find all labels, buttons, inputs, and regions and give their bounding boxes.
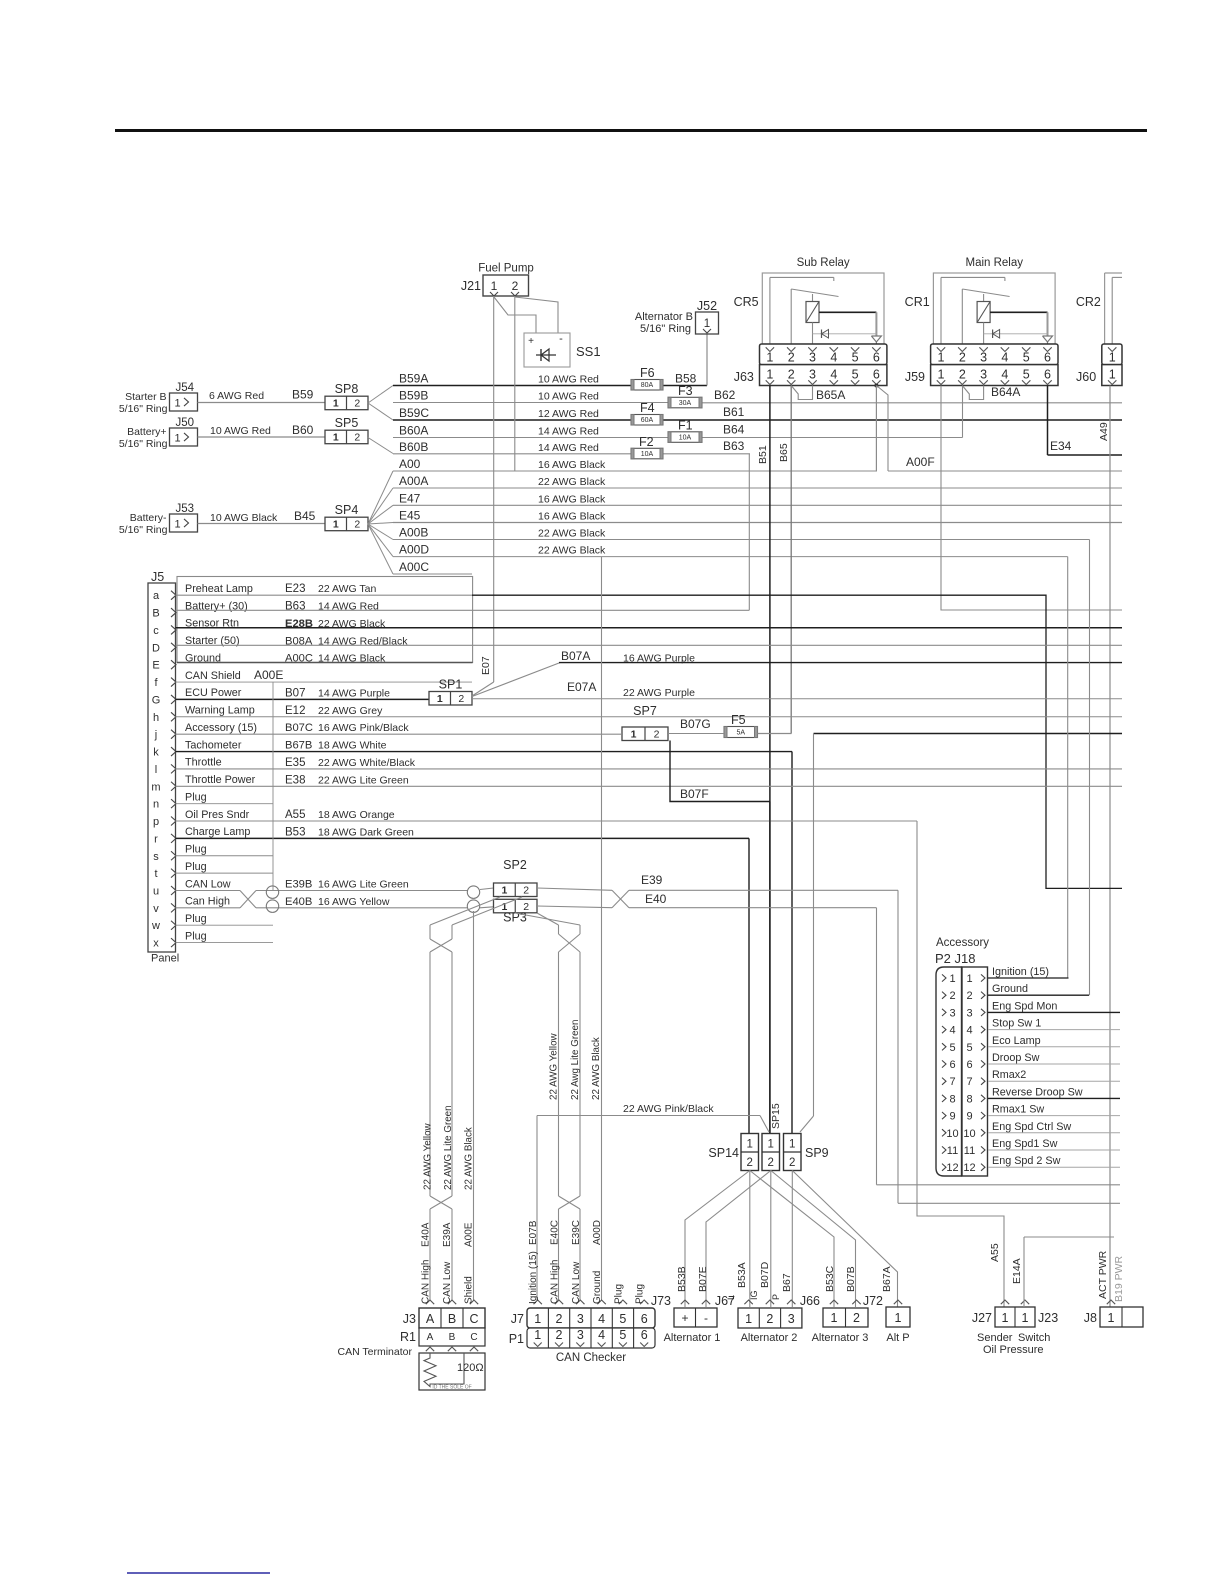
svg-text:B59B: B59B [399, 389, 428, 403]
svg-text:22 AWG Yellow: 22 AWG Yellow [549, 1032, 560, 1100]
svg-text:B07E: B07E [697, 1266, 709, 1292]
svg-text:SP14: SP14 [708, 1146, 739, 1160]
svg-text:A00B: A00B [399, 526, 428, 540]
svg-text:J66: J66 [800, 1294, 820, 1308]
svg-text:14 AWG Red: 14 AWG Red [538, 442, 599, 454]
svg-text:Fuel Pump: Fuel Pump [478, 263, 534, 275]
svg-text:v: v [153, 903, 159, 915]
svg-text:5/16" Ring: 5/16" Ring [640, 323, 691, 335]
svg-text:16 AWG Pink/Black: 16 AWG Pink/Black [318, 722, 409, 734]
svg-text:CAN Checker: CAN Checker [556, 1352, 626, 1364]
svg-text:E45: E45 [399, 509, 421, 523]
svg-text:9: 9 [949, 1111, 955, 1123]
svg-text:Throttle Power: Throttle Power [185, 774, 256, 786]
svg-text:L: L [726, 1295, 736, 1300]
svg-text:SS1: SS1 [576, 344, 601, 359]
svg-text:22 AWG Black: 22 AWG Black [464, 1127, 475, 1190]
svg-text:Plug: Plug [185, 930, 207, 942]
svg-text:1: 1 [174, 519, 180, 531]
svg-text:SP5: SP5 [335, 416, 359, 430]
svg-text:A00D: A00D [399, 543, 429, 557]
svg-text:B53B: B53B [676, 1266, 688, 1292]
svg-text:E39C: E39C [571, 1220, 582, 1245]
svg-text:D: D [152, 642, 160, 654]
svg-text:m: m [151, 781, 160, 793]
svg-text:4: 4 [1001, 368, 1008, 382]
svg-text:5: 5 [852, 351, 859, 365]
svg-text:1: 1 [938, 351, 945, 365]
svg-text:Ignition (15): Ignition (15) [528, 1251, 539, 1304]
svg-text:A55: A55 [285, 809, 305, 821]
svg-text:2: 2 [523, 885, 529, 897]
svg-text:Droop Sw: Droop Sw [992, 1052, 1040, 1064]
svg-text:Ground: Ground [592, 1271, 603, 1304]
svg-text:B59: B59 [292, 388, 314, 402]
svg-text:Alt P: Alt P [886, 1332, 909, 1344]
svg-text:2: 2 [949, 990, 955, 1002]
svg-text:CR5: CR5 [734, 295, 759, 309]
svg-text:B53C: B53C [824, 1265, 836, 1292]
svg-text:Plug: Plug [635, 1284, 646, 1304]
svg-text:22 AWG Tan: 22 AWG Tan [318, 583, 377, 595]
svg-text:22 AWG Grey: 22 AWG Grey [318, 705, 383, 717]
svg-text:1: 1 [534, 1312, 541, 1326]
svg-text:Rmax1 Sw: Rmax1 Sw [992, 1104, 1044, 1116]
svg-text:1: 1 [704, 318, 710, 330]
svg-text:3: 3 [788, 1312, 795, 1326]
svg-text:J63: J63 [734, 370, 754, 384]
svg-text:10A: 10A [641, 451, 654, 458]
svg-text:IG: IG [749, 1290, 759, 1300]
svg-text:6: 6 [641, 1312, 648, 1326]
svg-text:E14A: E14A [1011, 1258, 1023, 1284]
svg-text:J50: J50 [176, 417, 195, 429]
svg-text:B: B [449, 1332, 456, 1343]
svg-text:3: 3 [966, 1007, 972, 1019]
svg-text:k: k [153, 747, 159, 759]
svg-text:Starter B: Starter B [125, 391, 166, 403]
svg-text:10 AWG Red: 10 AWG Red [538, 391, 599, 403]
svg-text:SP15: SP15 [770, 1103, 782, 1129]
svg-text:J7: J7 [511, 1312, 524, 1326]
svg-text:2: 2 [959, 368, 966, 382]
svg-text:A49: A49 [1098, 422, 1110, 441]
svg-text:+: + [681, 1311, 688, 1325]
svg-text:7: 7 [966, 1076, 972, 1088]
svg-text:22 AWG Pink/Black: 22 AWG Pink/Black [623, 1103, 714, 1115]
svg-text:A00E: A00E [464, 1222, 475, 1247]
svg-text:B07G: B07G [680, 717, 711, 731]
svg-text:2: 2 [512, 279, 519, 293]
svg-text:22 AWG White/Black: 22 AWG White/Black [318, 757, 416, 769]
svg-text:CAN High: CAN High [421, 1260, 432, 1304]
svg-text:B62: B62 [714, 388, 736, 402]
svg-text:J27: J27 [972, 1311, 992, 1325]
svg-text:SP3: SP3 [503, 911, 527, 925]
svg-text:1: 1 [1022, 1311, 1029, 1325]
svg-text:2: 2 [556, 1312, 563, 1326]
svg-text:B51: B51 [757, 445, 769, 464]
svg-text:u: u [153, 885, 159, 897]
svg-text:2: 2 [788, 368, 795, 382]
svg-text:22 AWG Black: 22 AWG Black [538, 528, 606, 540]
svg-text:2: 2 [556, 1328, 563, 1342]
svg-text:1: 1 [966, 973, 972, 985]
svg-text:22 Awg Lite Green: 22 Awg Lite Green [570, 1020, 581, 1100]
svg-text:2: 2 [789, 1157, 795, 1169]
svg-text:B61: B61 [723, 405, 745, 419]
svg-text:1: 1 [333, 432, 339, 444]
svg-text:E: E [152, 660, 159, 672]
svg-text:C: C [469, 1312, 478, 1326]
svg-text:CAN Low: CAN Low [185, 878, 231, 890]
svg-text:n: n [153, 799, 159, 811]
svg-text:5/16" Ring: 5/16" Ring [119, 438, 168, 450]
svg-text:6: 6 [873, 368, 880, 382]
svg-text:18 AWG Dark Green: 18 AWG Dark Green [318, 826, 414, 838]
svg-text:12: 12 [946, 1162, 958, 1174]
svg-text:1: 1 [938, 368, 945, 382]
svg-text:Reverse Droop Sw: Reverse Droop Sw [992, 1086, 1083, 1098]
svg-text:Plug: Plug [185, 861, 207, 873]
svg-text:Eng Spd1 Sw: Eng Spd1 Sw [992, 1138, 1058, 1150]
svg-text:1: 1 [895, 1311, 902, 1325]
svg-text:2: 2 [354, 519, 360, 531]
svg-text:1: 1 [831, 1311, 838, 1325]
svg-text:1: 1 [174, 433, 180, 445]
svg-text:B53: B53 [285, 826, 305, 838]
svg-text:5: 5 [1023, 368, 1030, 382]
svg-text:Eco Lamp: Eco Lamp [992, 1035, 1041, 1047]
svg-text:1: 1 [491, 279, 498, 293]
svg-text:Eng Spd Mon: Eng Spd Mon [992, 1000, 1057, 1012]
svg-text:B60A: B60A [399, 424, 428, 438]
svg-text:r: r [154, 833, 158, 845]
svg-text:2: 2 [746, 1157, 752, 1169]
svg-text:Alternator B: Alternator B [635, 311, 693, 323]
svg-text:16 AWG Lite Green: 16 AWG Lite Green [318, 878, 409, 890]
svg-text:1: 1 [1002, 1311, 1009, 1325]
svg-text:10 AWG Black: 10 AWG Black [210, 512, 278, 524]
svg-text:6: 6 [641, 1328, 648, 1342]
svg-text:Panel: Panel [151, 953, 179, 965]
svg-text:A00: A00 [399, 457, 421, 471]
svg-text:Preheat Lamp: Preheat Lamp [185, 583, 253, 595]
svg-text:CAN Low: CAN Low [571, 1261, 582, 1304]
svg-text:F6: F6 [640, 366, 655, 380]
svg-text:B63: B63 [723, 439, 745, 453]
svg-text:2: 2 [766, 1312, 773, 1326]
svg-text:B45: B45 [294, 509, 316, 523]
svg-text:6 AWG Red: 6 AWG Red [209, 390, 264, 402]
svg-text:Plug: Plug [613, 1284, 624, 1304]
svg-text:4: 4 [830, 351, 837, 365]
svg-text:22 AWG Lite Green: 22 AWG Lite Green [443, 1105, 454, 1190]
svg-text:22 AWG Black: 22 AWG Black [591, 1037, 602, 1100]
svg-text:2: 2 [788, 351, 795, 365]
svg-text:t: t [154, 868, 157, 880]
svg-text:2: 2 [959, 351, 966, 365]
svg-text:E39: E39 [641, 873, 663, 887]
svg-text:A: A [426, 1312, 435, 1326]
svg-text:J52: J52 [697, 299, 717, 313]
svg-text:CAN Terminator: CAN Terminator [338, 1346, 413, 1358]
svg-text:SP1: SP1 [439, 678, 463, 692]
svg-text:1: 1 [1108, 1311, 1115, 1325]
svg-text:4: 4 [598, 1328, 605, 1342]
svg-text:B07A: B07A [561, 649, 590, 663]
svg-text:22 AWG Black: 22 AWG Black [538, 476, 606, 488]
svg-text:3: 3 [980, 351, 987, 365]
svg-text:5: 5 [619, 1312, 626, 1326]
svg-text:J5: J5 [151, 570, 164, 584]
svg-text:6: 6 [966, 1059, 972, 1071]
svg-text:3: 3 [577, 1328, 584, 1342]
svg-text:2: 2 [354, 398, 360, 410]
svg-text:4: 4 [830, 368, 837, 382]
svg-text:22 AWG Black: 22 AWG Black [538, 545, 606, 557]
svg-text:E35: E35 [285, 757, 305, 769]
svg-text:SP9: SP9 [805, 1146, 829, 1160]
svg-text:18 AWG Orange: 18 AWG Orange [318, 809, 395, 821]
svg-text:Ground: Ground [992, 983, 1028, 995]
svg-text:3: 3 [577, 1312, 584, 1326]
svg-text:Alternator 2: Alternator 2 [741, 1332, 798, 1344]
svg-text:Oil Pressure: Oil Pressure [983, 1344, 1044, 1356]
svg-text:2: 2 [458, 693, 464, 705]
svg-text:h: h [153, 712, 159, 724]
svg-text:E39A: E39A [442, 1222, 453, 1247]
svg-text:14 AWG Purple: 14 AWG Purple [318, 687, 390, 699]
svg-text:3: 3 [809, 351, 816, 365]
svg-text:ID THE SOLE OF: ID THE SOLE OF [432, 1385, 471, 1391]
svg-text:s: s [153, 851, 159, 863]
svg-text:16 AWG Black: 16 AWG Black [538, 511, 606, 523]
svg-text:2: 2 [767, 1157, 773, 1169]
svg-text:18 AWG White: 18 AWG White [318, 740, 387, 752]
svg-text:5: 5 [966, 1042, 972, 1054]
svg-text:9: 9 [966, 1111, 972, 1123]
svg-text:10: 10 [963, 1128, 975, 1140]
svg-text:J59: J59 [905, 370, 925, 384]
svg-text:E12: E12 [285, 705, 305, 717]
svg-text:1: 1 [1109, 351, 1116, 365]
svg-text:B07C: B07C [285, 722, 313, 734]
svg-text:10A: 10A [679, 434, 692, 441]
svg-text:10 AWG Red: 10 AWG Red [538, 374, 599, 386]
svg-text:Alternator 1: Alternator 1 [664, 1332, 721, 1344]
svg-text:B65A: B65A [816, 388, 845, 402]
svg-text:Warning Lamp: Warning Lamp [185, 705, 255, 717]
svg-text:Stop Sw 1: Stop Sw 1 [992, 1018, 1041, 1030]
svg-text:C: C [470, 1332, 477, 1343]
svg-text:1: 1 [437, 693, 443, 705]
svg-text:1: 1 [333, 519, 339, 531]
svg-text:J3: J3 [403, 1312, 416, 1326]
svg-text:22 AWG Yellow: 22 AWG Yellow [423, 1122, 434, 1190]
svg-text:11: 11 [964, 1145, 975, 1157]
svg-text:16 AWG Black: 16 AWG Black [538, 459, 606, 471]
svg-text:1: 1 [174, 398, 180, 410]
svg-text:11: 11 [947, 1145, 958, 1157]
svg-text:1: 1 [534, 1328, 541, 1342]
svg-text:Switch: Switch [1018, 1332, 1050, 1344]
svg-text:P: P [771, 1294, 781, 1300]
svg-text:22 AWG Purple: 22 AWG Purple [623, 687, 695, 699]
svg-text:F4: F4 [640, 401, 655, 415]
svg-text:E38: E38 [285, 774, 305, 786]
svg-text:Accessory: Accessory [936, 937, 989, 949]
svg-text:16 AWG Black: 16 AWG Black [538, 493, 606, 505]
svg-text:J54: J54 [176, 382, 195, 394]
svg-text:Plug: Plug [185, 791, 207, 803]
svg-text:1: 1 [501, 885, 507, 897]
svg-text:E34: E34 [1050, 439, 1072, 453]
svg-text:SP2: SP2 [503, 858, 527, 872]
svg-text:F5: F5 [731, 713, 746, 727]
svg-text:22 AWG Lite Green: 22 AWG Lite Green [318, 774, 409, 786]
svg-text:CR2: CR2 [1076, 295, 1101, 309]
svg-text:1: 1 [766, 368, 773, 382]
svg-text:10: 10 [946, 1128, 958, 1140]
svg-text:2: 2 [966, 990, 972, 1002]
svg-text:1: 1 [789, 1139, 795, 1151]
svg-text:E40C: E40C [550, 1220, 561, 1245]
svg-text:-: - [559, 333, 563, 345]
svg-text:1: 1 [766, 351, 773, 365]
svg-text:CAN Shield: CAN Shield [185, 670, 241, 682]
svg-text:E39B: E39B [285, 878, 312, 890]
svg-text:P2 J18: P2 J18 [935, 951, 975, 966]
svg-text:A00E: A00E [254, 668, 283, 682]
svg-text:B07B: B07B [845, 1266, 857, 1292]
svg-text:CAN High: CAN High [550, 1260, 561, 1304]
svg-text:ACT PWR: ACT PWR [1097, 1250, 1109, 1299]
svg-text:J73: J73 [651, 1294, 671, 1308]
svg-text:6: 6 [1044, 351, 1051, 365]
svg-text:F2: F2 [639, 435, 654, 449]
svg-text:J53: J53 [176, 503, 195, 515]
svg-text:A00A: A00A [399, 474, 428, 488]
svg-text:F3: F3 [678, 384, 693, 398]
svg-text:E40: E40 [645, 892, 667, 906]
svg-text:B: B [152, 608, 159, 620]
svg-text:2: 2 [853, 1311, 860, 1325]
svg-text:J72: J72 [863, 1294, 883, 1308]
svg-text:2: 2 [654, 729, 660, 741]
svg-text:B59A: B59A [399, 372, 428, 386]
svg-text:J8: J8 [1084, 1311, 1097, 1325]
svg-text:A: A [427, 1332, 434, 1343]
svg-text:8: 8 [966, 1093, 972, 1105]
svg-text:J21: J21 [461, 279, 481, 293]
svg-text:J60: J60 [1076, 370, 1096, 384]
svg-text:Sender: Sender [977, 1332, 1013, 1344]
svg-text:Ignition (15): Ignition (15) [992, 966, 1049, 978]
svg-text:B07F: B07F [680, 787, 709, 801]
svg-text:SP4: SP4 [335, 503, 359, 517]
svg-text:2: 2 [354, 432, 360, 444]
svg-text:4: 4 [966, 1025, 972, 1037]
svg-text:Alternator 3: Alternator 3 [812, 1332, 869, 1344]
svg-text:E07A: E07A [567, 680, 596, 694]
svg-text:7: 7 [949, 1076, 955, 1088]
svg-text:Plug: Plug [185, 844, 207, 856]
svg-text:SP7: SP7 [633, 704, 657, 718]
svg-text:5: 5 [852, 368, 859, 382]
svg-text:1: 1 [767, 1139, 773, 1151]
svg-text:B: B [448, 1312, 456, 1326]
svg-text:Charge Lamp: Charge Lamp [185, 826, 250, 838]
svg-text:B19 PWR: B19 PWR [1113, 1255, 1125, 1302]
svg-text:A00C: A00C [399, 560, 429, 574]
svg-text:1: 1 [333, 398, 339, 410]
svg-text:60A: 60A [641, 417, 654, 424]
svg-text:B59C: B59C [399, 406, 429, 420]
svg-text:w: w [151, 920, 160, 932]
svg-text:J23: J23 [1038, 1311, 1058, 1325]
svg-text:E23: E23 [285, 583, 305, 595]
svg-text:a: a [153, 590, 160, 602]
svg-text:Can High: Can High [185, 896, 230, 908]
svg-text:A00D: A00D [592, 1220, 603, 1245]
svg-text:6: 6 [873, 351, 880, 365]
svg-text:E40A: E40A [421, 1222, 432, 1247]
svg-text:Throttle: Throttle [185, 757, 222, 769]
svg-text:E40B: E40B [285, 896, 312, 908]
svg-text:30A: 30A [679, 400, 692, 407]
svg-text:14 AWG Red: 14 AWG Red [538, 426, 599, 438]
svg-text:B53A: B53A [736, 1262, 748, 1288]
svg-text:B64: B64 [723, 423, 745, 437]
svg-text:l: l [155, 764, 157, 776]
svg-text:B64A: B64A [991, 385, 1020, 399]
svg-text:B65: B65 [778, 443, 790, 462]
svg-text:ECU Power: ECU Power [185, 687, 242, 699]
svg-text:Sub Relay: Sub Relay [797, 257, 850, 269]
svg-text:3: 3 [809, 368, 816, 382]
svg-text:1: 1 [745, 1312, 752, 1326]
svg-text:6: 6 [1044, 368, 1051, 382]
svg-text:Eng Spd Ctrl Sw: Eng Spd Ctrl Sw [992, 1121, 1071, 1133]
svg-text:16 AWG Yellow: 16 AWG Yellow [318, 896, 390, 908]
svg-text:3: 3 [980, 368, 987, 382]
svg-text:5A: 5A [736, 730, 745, 737]
svg-text:Battery-: Battery- [130, 512, 167, 524]
svg-text:1: 1 [631, 729, 637, 741]
svg-text:-: - [704, 1311, 708, 1325]
svg-text:Shield: Shield [464, 1276, 475, 1304]
svg-text:Battery+: Battery+ [127, 426, 166, 438]
svg-text:Plug: Plug [185, 913, 207, 925]
svg-text:Rmax2: Rmax2 [992, 1069, 1026, 1081]
svg-text:G: G [152, 694, 161, 706]
svg-text:x: x [153, 938, 159, 950]
svg-text:Accessory (15): Accessory (15) [185, 722, 257, 734]
svg-text:5: 5 [1023, 351, 1030, 365]
svg-text:Oil Pres Sndr: Oil Pres Sndr [185, 809, 250, 821]
svg-text:B07: B07 [285, 687, 305, 699]
svg-text:1: 1 [746, 1139, 752, 1151]
svg-text:5/16" Ring: 5/16" Ring [119, 524, 168, 536]
svg-text:5: 5 [619, 1328, 626, 1342]
svg-text:5: 5 [949, 1042, 955, 1054]
svg-text:Tachometer: Tachometer [185, 739, 242, 751]
svg-text:Main Relay: Main Relay [965, 257, 1023, 269]
svg-text:CAN Low: CAN Low [442, 1261, 453, 1304]
svg-text:A00F: A00F [906, 455, 935, 469]
svg-text:8: 8 [949, 1093, 955, 1105]
